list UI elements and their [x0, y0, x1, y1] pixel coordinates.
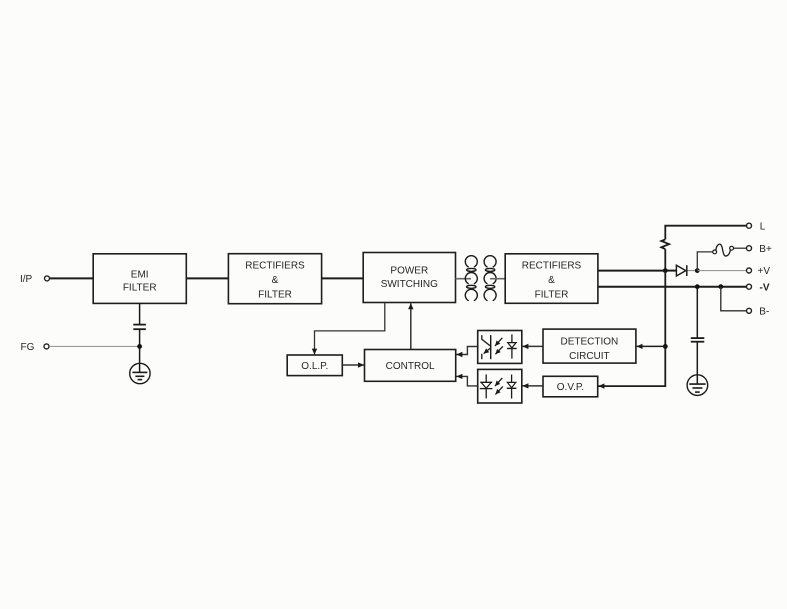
svg-text:DETECTION: DETECTION [561, 337, 619, 348]
wire POWER SWITCHING to O.L.P. [315, 303, 385, 355]
wire optocoupler 1 to CONTROL [456, 347, 477, 355]
optocoupler U2 LED [507, 375, 517, 399]
svg-text:+V: +V [758, 266, 771, 277]
wire -V rail [598, 286, 747, 288]
Y-capacitor [133, 325, 146, 330]
block O.V.P. [543, 376, 598, 397]
svg-text:POWER: POWER [390, 265, 428, 276]
svg-text:FG: FG [21, 342, 35, 353]
junction -V / filter cap [695, 284, 700, 289]
wire DETECTION CIRCUIT to optocoupler 1 [522, 345, 543, 347]
optocoupler U1 phototransistor [482, 335, 491, 359]
svg-text:FILTER: FILTER [535, 289, 569, 300]
terminal FG [44, 344, 49, 349]
svg-text:CIRCUIT: CIRCUIT [569, 351, 610, 362]
earth ground (output) [687, 375, 708, 396]
wire CONTROL to POWER SWITCHING [410, 303, 412, 349]
svg-text:FILTER: FILTER [123, 283, 157, 294]
block RECTIFIERS & FILTER (output) [505, 254, 598, 303]
transformer T1 secondary winding [484, 256, 496, 301]
svg-text:SWITCHING: SWITCHING [381, 279, 438, 290]
optocoupler U1 LED [507, 334, 517, 358]
junction node C (detection tap) [663, 344, 668, 349]
wire POWER SWITCHING to transformer primary [456, 278, 472, 280]
block DETECTION CIRCUIT [543, 329, 636, 363]
wire node B up to thermal fuse [697, 252, 713, 271]
block CONTROL [365, 350, 456, 382]
svg-text:FILTER: FILTER [258, 289, 292, 300]
earth ground (FG) [130, 363, 150, 383]
wire EMI FILTER to Y-capacitor [139, 303, 141, 324]
junction node B (+V) [695, 268, 700, 273]
wire sensing bus: node A down to O.V.P. [598, 271, 665, 387]
wire I/P to EMI FILTER [50, 277, 93, 279]
optocoupler U2 photodiode [480, 374, 493, 398]
wire RECTIFIERS & FILTER 2 upper output to node A [598, 270, 665, 272]
diode D1 [668, 265, 698, 276]
optocoupler U1 light arrows [495, 338, 503, 354]
junction FG node [137, 344, 142, 349]
junction node A [663, 268, 668, 273]
thermal fuse (battery circuit breaker) [713, 244, 734, 256]
output filter capacitor [691, 287, 705, 384]
wire O.V.P. to optocoupler 2 [522, 385, 543, 387]
svg-text:-V: -V [760, 282, 770, 293]
wire capacitor to earth [139, 329, 141, 372]
svg-text:CONTROL: CONTROL [386, 361, 435, 372]
terminal I/P [45, 276, 50, 281]
terminal +V [747, 268, 752, 273]
svg-text:EMI: EMI [131, 269, 149, 280]
wire RECTIFIERS & FILTER 1 to POWER SWITCHING [322, 277, 364, 279]
wire FG to ground node [49, 345, 139, 347]
optocoupler U1 box [478, 331, 522, 364]
block O.L.P. [287, 355, 342, 376]
terminal B- [747, 308, 752, 313]
svg-text:O.L.P.: O.L.P. [301, 361, 328, 372]
wire node C to DETECTION CIRCUIT [637, 345, 666, 347]
wire node A up to L terminal [665, 226, 746, 271]
svg-text:O.V.P.: O.V.P. [557, 382, 584, 393]
terminal L [747, 223, 752, 228]
wire +V lead [697, 270, 746, 272]
optocoupler U2 box [478, 369, 522, 403]
block EMI FILTER [93, 254, 186, 304]
svg-text:L: L [760, 221, 766, 232]
junction -V / B- [718, 284, 723, 289]
terminal -V [747, 284, 752, 289]
svg-text:&: & [272, 275, 279, 286]
svg-text:RECTIFIERS: RECTIFIERS [245, 260, 305, 271]
wire fuse to B+ terminal [734, 247, 747, 249]
block POWER SWITCHING [363, 253, 455, 303]
svg-text:&: & [548, 275, 555, 286]
wire B- branch [721, 287, 747, 311]
transformer T1 primary winding [465, 256, 477, 301]
terminal B+ [747, 246, 752, 251]
resistor (bleeder) [661, 239, 669, 249]
wire optocoupler 2 to CONTROL [456, 376, 477, 386]
wire EMI FILTER to RECTIFIERS & FILTER 1 [186, 277, 228, 279]
wire transformer secondary to RECTIFIERS & FILTER 2 [490, 278, 505, 280]
svg-text:B+: B+ [759, 244, 772, 255]
optocoupler U2 light arrows [495, 378, 503, 395]
wire O.L.P. to CONTROL [342, 364, 364, 366]
block RECTIFIERS & FILTER (input) [228, 254, 321, 304]
svg-text:I/P: I/P [20, 274, 33, 285]
svg-text:B-: B- [759, 307, 769, 318]
svg-text:RECTIFIERS: RECTIFIERS [522, 260, 582, 271]
